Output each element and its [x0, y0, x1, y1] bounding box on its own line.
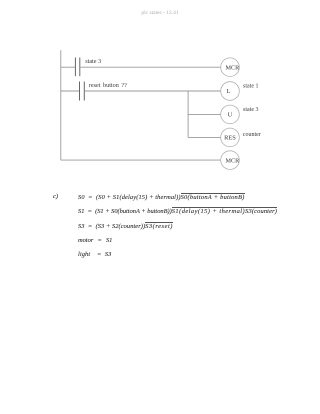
- contact: state 3: [75, 58, 101, 77]
- coil MCR (rung 1): [221, 58, 240, 77]
- equation: motor: [78, 238, 112, 244]
- coil L (latch, state 1): [221, 82, 259, 101]
- coil MCR (bottom): [221, 151, 240, 170]
- wire: rung 2 right segment: [84, 90, 220, 92]
- equation: S1: [78, 209, 277, 215]
- wire: rung 5 (bottom MCR): [61, 159, 221, 161]
- svg-text:U: U: [228, 112, 233, 119]
- contact: reset button ??: [80, 82, 128, 101]
- svg-text:RES: RES: [224, 135, 236, 142]
- part label c): [53, 194, 58, 200]
- wire: branch to U: [188, 113, 221, 115]
- equation: S0: [78, 195, 245, 201]
- svg-text:reset button ??: reset button ??: [89, 82, 127, 89]
- svg-text:state 1: state 1: [243, 83, 259, 89]
- svg-text:counter: counter: [243, 132, 261, 138]
- coil RES (reset counter): [221, 128, 261, 147]
- svg-text:state 3: state 3: [243, 107, 259, 113]
- equation: light: [78, 252, 111, 258]
- wire: rung 1 left segment: [61, 66, 76, 68]
- svg-text:MCR: MCR: [226, 157, 241, 164]
- wire: branch to RES: [188, 136, 221, 138]
- svg-text:state 3: state 3: [85, 58, 101, 65]
- wire: rung 2 left segment: [61, 90, 80, 92]
- wire: rung 1 right segment: [80, 66, 221, 68]
- svg-text:MCR: MCR: [226, 64, 241, 71]
- left power rail: [60, 50, 62, 160]
- coil U (unlatch, state 3): [221, 105, 259, 124]
- svg-text:L: L: [227, 88, 231, 95]
- wire: branch vertical: [187, 91, 189, 137]
- equation: S3: [78, 224, 173, 230]
- page header: plc states - 12.41: [0, 10, 320, 16]
